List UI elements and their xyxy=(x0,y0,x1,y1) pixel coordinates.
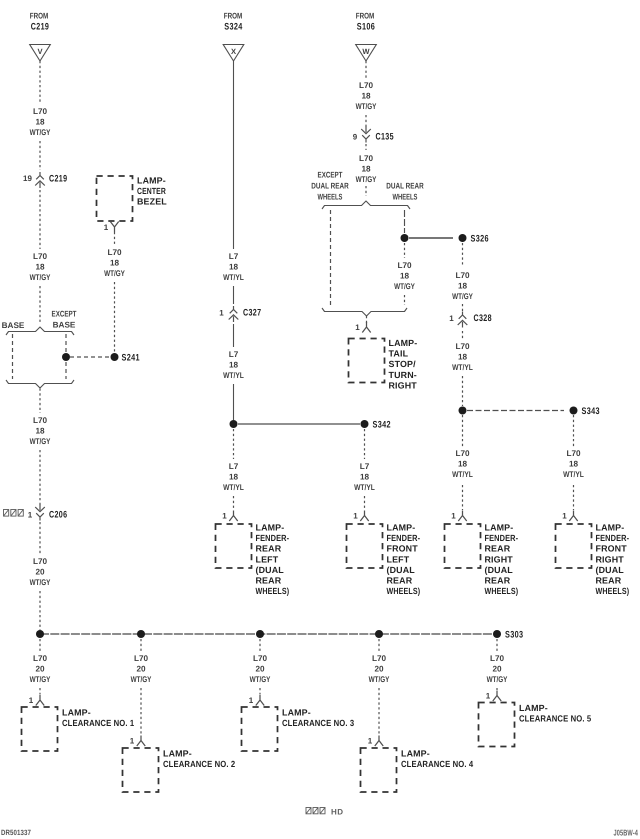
svg-text:LAMP-: LAMP- xyxy=(387,523,416,533)
wire to connector C206 xyxy=(39,450,41,507)
svg-text:REAR: REAR xyxy=(485,576,511,586)
wire drop to clearance no. 4 pin xyxy=(378,688,380,735)
svg-text:C206: C206 xyxy=(49,510,67,521)
svg-text:L70: L70 xyxy=(253,654,268,663)
svg-text:WT/GY: WT/GY xyxy=(394,282,415,291)
svg-text:L70: L70 xyxy=(359,81,374,90)
svg-text:(DUAL: (DUAL xyxy=(485,565,514,575)
connector C327 pin 1 xyxy=(219,306,261,322)
svg-text:LAMP-: LAMP- xyxy=(485,523,514,533)
svg-text:WT/GY: WT/GY xyxy=(369,675,390,684)
svg-text:L70: L70 xyxy=(359,154,374,163)
svg-text:18: 18 xyxy=(35,427,45,436)
svg-text:S106: S106 xyxy=(357,22,375,33)
wire to connector C135 xyxy=(365,115,367,127)
svg-text:18: 18 xyxy=(229,473,239,482)
wire BASE branch xyxy=(12,334,14,379)
bus junction 3 xyxy=(256,630,264,638)
svg-text:WT/GY: WT/GY xyxy=(250,675,271,684)
wire L70 20 WT/GY (clearance no. 1) xyxy=(30,639,51,684)
junction dual-wheels branch xyxy=(401,234,409,242)
svg-text:1: 1 xyxy=(249,696,254,705)
wire to connector C327 xyxy=(233,286,235,304)
svg-text:LEFT: LEFT xyxy=(256,554,279,564)
svg-text:S342: S342 xyxy=(373,420,391,431)
svg-text:FENDER-: FENDER- xyxy=(256,533,290,543)
label EXCEPT BASE xyxy=(52,310,77,330)
svg-text:WHEELS: WHEELS xyxy=(318,193,343,202)
junction at S342 branch xyxy=(230,420,238,428)
svg-text:WT/GY: WT/GY xyxy=(356,102,377,111)
svg-text:L70: L70 xyxy=(107,248,122,257)
svg-text:WHEELS): WHEELS) xyxy=(596,586,630,596)
wire to clearance bus xyxy=(39,591,41,630)
junction at S343 branch xyxy=(459,407,467,415)
svg-text:FRONT: FRONT xyxy=(387,544,419,554)
tail lamp pin 1 fork xyxy=(355,322,370,333)
svg-text:LAMP-: LAMP- xyxy=(596,523,625,533)
svg-text:20: 20 xyxy=(374,665,384,674)
svg-text:WT/GY: WT/GY xyxy=(487,675,508,684)
lamp - center bezel xyxy=(97,176,168,222)
wire L7 18 WT/YL (fender front left) xyxy=(354,429,375,492)
lamp - clearance no. 5 xyxy=(479,703,592,747)
svg-text:S241: S241 xyxy=(122,353,141,364)
svg-text:18: 18 xyxy=(360,473,370,482)
svg-text:18: 18 xyxy=(400,272,410,281)
svg-text:LAMP-: LAMP- xyxy=(282,708,311,718)
lamp - fender front right (dual rear wheels) xyxy=(556,523,630,597)
svg-text:20: 20 xyxy=(492,665,502,674)
lamp - fender front left (dual rear wheels) xyxy=(347,523,421,597)
svg-text:S326: S326 xyxy=(471,234,489,245)
svg-text:20: 20 xyxy=(35,665,45,674)
wire S342 tie line xyxy=(238,423,360,425)
splice S342 xyxy=(361,420,391,431)
svg-text:FRONT: FRONT xyxy=(596,544,628,554)
svg-text:LAMP-: LAMP- xyxy=(62,708,91,718)
wire L70 18 WT/GY (C219 feed upper) xyxy=(30,61,51,137)
svg-text:1: 1 xyxy=(451,512,456,521)
svg-text:1: 1 xyxy=(486,692,491,701)
svg-text:1: 1 xyxy=(130,737,135,746)
svg-text:WT/YL: WT/YL xyxy=(563,470,584,479)
svg-text:CLEARANCE NO. 2: CLEARANCE NO. 2 xyxy=(163,759,235,769)
svg-text:C327: C327 xyxy=(243,308,261,319)
wire stub to wheels brace xyxy=(365,186,367,196)
splice S303 xyxy=(493,630,523,641)
wire L70 18 WT/YL (below C328) xyxy=(452,331,473,372)
svg-text:TURN-: TURN- xyxy=(389,370,417,380)
svg-text:WT/GY: WT/GY xyxy=(30,675,51,684)
bus junction 1 xyxy=(36,630,44,638)
splice S241 xyxy=(111,353,141,364)
svg-text:18: 18 xyxy=(458,353,468,362)
svg-text:1: 1 xyxy=(562,512,567,521)
svg-text:WT/YL: WT/YL xyxy=(223,483,244,492)
footer plate number J05BW-4 xyxy=(614,828,639,838)
svg-text:C219: C219 xyxy=(31,22,49,33)
svg-text:WT/YL: WT/YL xyxy=(223,371,244,380)
wire to tail lamp pin xyxy=(366,316,368,323)
svg-text:CLEARANCE NO. 4: CLEARANCE NO. 4 xyxy=(401,759,473,769)
wire to connector C219 xyxy=(39,141,41,170)
svg-text:L70: L70 xyxy=(397,261,412,270)
svg-text:FENDER-: FENDER- xyxy=(596,533,630,543)
svg-text:L7: L7 xyxy=(229,462,239,471)
svg-text:1: 1 xyxy=(104,223,109,232)
svg-text:20: 20 xyxy=(255,665,265,674)
svg-text:C219: C219 xyxy=(49,174,67,185)
wire L70 18 WT/GY (dual wheels branch) xyxy=(394,243,415,291)
wire label L70 18 WT/GY (above C206) xyxy=(30,416,51,446)
svg-text:S303: S303 xyxy=(505,630,523,641)
svg-text:18: 18 xyxy=(35,118,45,127)
svg-text:L7: L7 xyxy=(360,462,370,471)
splice S343 xyxy=(570,406,600,417)
svg-text:1: 1 xyxy=(353,512,358,521)
svg-text:RIGHT: RIGHT xyxy=(485,554,514,564)
svg-text:1: 1 xyxy=(28,511,33,520)
lamp - clearance no. 4 xyxy=(361,748,474,792)
svg-text:LAMP-: LAMP- xyxy=(163,749,192,759)
svg-text:LAMP-: LAMP- xyxy=(137,176,166,186)
wire splice link to S241 xyxy=(70,356,110,358)
lamp - clearance no. 1 xyxy=(22,707,135,751)
wire drop to clearance no. 1 pin xyxy=(39,688,41,695)
svg-text:9: 9 xyxy=(353,133,358,142)
lamp - clearance no. 2 xyxy=(123,748,236,792)
wire to fender front right pin xyxy=(573,485,575,510)
svg-text:WT/GY: WT/GY xyxy=(452,292,473,301)
svg-text:WHEELS): WHEELS) xyxy=(387,586,421,596)
wire L70 18 WT/GY (below C135) xyxy=(356,144,377,184)
svg-text:L70: L70 xyxy=(566,449,581,458)
wire drop to clearance no. 2 pin xyxy=(140,688,142,735)
wire drop to clearance no. 3 pin xyxy=(259,688,261,695)
brace option merge (tail lamp) xyxy=(322,308,407,316)
svg-text:19: 19 xyxy=(23,174,32,183)
svg-text:L70: L70 xyxy=(455,449,470,458)
brace option split (BASE / EXCEPT BASE) xyxy=(6,327,74,335)
label EXCEPT DUAL REAR WHEELS xyxy=(311,171,348,202)
svg-text:1: 1 xyxy=(449,314,454,323)
svg-text:FENDER-: FENDER- xyxy=(485,533,519,543)
svg-text:WHEELS): WHEELS) xyxy=(256,586,290,596)
lamp - fender rear left (dual rear wheels) xyxy=(216,523,290,597)
svg-text:18: 18 xyxy=(458,460,468,469)
wire DUAL REAR WHEELS branch upper xyxy=(404,210,406,233)
connector C206 pin 1 xyxy=(4,505,68,521)
wire L70 20 WT/GY (clearance no. 5) xyxy=(487,639,508,684)
wire L7 18 WT/YL (fender rear left) xyxy=(223,429,244,492)
svg-text:REAR: REAR xyxy=(256,576,282,586)
wire L7 18 WT/YL (S324 feed) xyxy=(223,61,244,282)
svg-text:L7: L7 xyxy=(229,350,239,359)
wire to S343 junction xyxy=(462,376,464,406)
wire L70 18 WT/GY (below C219) xyxy=(30,190,51,282)
svg-text:WT/GY: WT/GY xyxy=(131,675,152,684)
svg-text:DUAL REAR: DUAL REAR xyxy=(386,182,423,191)
svg-text:18: 18 xyxy=(110,259,120,268)
svg-text:C135: C135 xyxy=(376,132,395,143)
wire EXCEPT DUAL REAR WHEELS branch xyxy=(330,210,332,305)
svg-text:18: 18 xyxy=(361,165,371,174)
wire tie to S343 xyxy=(467,410,564,412)
svg-text:LAMP-: LAMP- xyxy=(389,338,418,348)
svg-text:1: 1 xyxy=(222,512,227,521)
clearance no. 2 pin 1 fork xyxy=(130,736,145,747)
svg-text:FROM: FROM xyxy=(356,12,375,21)
wire L70 20 WT/GY (below C206) xyxy=(30,522,51,587)
from S324 source label xyxy=(224,12,243,33)
svg-text:18: 18 xyxy=(229,361,239,370)
clearance no. 4 pin 1 fork xyxy=(368,736,383,747)
from C219 source label xyxy=(30,12,49,33)
brace option split (dual rear wheels) xyxy=(322,201,410,209)
svg-text:L70: L70 xyxy=(33,416,48,425)
svg-text:S324: S324 xyxy=(224,22,243,33)
svg-text:EXCEPT: EXCEPT xyxy=(52,310,77,319)
svg-text:20: 20 xyxy=(35,568,45,577)
fender rear left pin 1 fork xyxy=(222,511,237,522)
svg-text:DUAL REAR: DUAL REAR xyxy=(311,182,348,191)
wire L70 18 WT/GY (below S326) xyxy=(452,243,473,301)
fender rear right pin 1 fork xyxy=(451,511,466,522)
wire center bezel to splice S241 xyxy=(114,282,116,352)
svg-text:WT/GY: WT/GY xyxy=(30,128,51,137)
wire to splice S342 junction xyxy=(233,384,235,420)
svg-text:WT/GY: WT/GY xyxy=(30,578,51,587)
svg-text:RIGHT: RIGHT xyxy=(389,380,418,390)
svg-text:CLEARANCE NO. 5: CLEARANCE NO. 5 xyxy=(519,714,591,724)
svg-text:WT/YL: WT/YL xyxy=(354,483,375,492)
wire L70 20 WT/GY (clearance no. 3) xyxy=(250,639,271,684)
svg-text:BASE: BASE xyxy=(2,321,25,330)
wire to fender rear right pin xyxy=(462,485,464,510)
svg-text:BASE: BASE xyxy=(53,321,76,330)
svg-text:L70: L70 xyxy=(490,654,505,663)
svg-text:FROM: FROM xyxy=(224,12,243,21)
clearance no. 3 pin 1 fork xyxy=(249,695,264,706)
svg-text:L70: L70 xyxy=(33,107,48,116)
svg-text:1: 1 xyxy=(368,737,373,746)
wire L70 20 WT/GY (clearance no. 4) xyxy=(369,639,390,684)
svg-text:REAR: REAR xyxy=(596,576,622,586)
svg-text:L70: L70 xyxy=(134,654,149,663)
svg-text:L7: L7 xyxy=(229,252,239,261)
svg-text:LAMP-: LAMP- xyxy=(256,523,285,533)
svg-text:L70: L70 xyxy=(33,252,48,261)
wire EXCEPT BASE branch xyxy=(65,334,67,379)
footer sheet number DR501337 xyxy=(1,828,31,837)
svg-text:STOP/: STOP/ xyxy=(389,359,417,369)
svg-text:1: 1 xyxy=(355,323,360,332)
svg-text:C328: C328 xyxy=(474,313,492,324)
off-page arrow V (from C219) xyxy=(30,45,51,62)
svg-text:1: 1 xyxy=(219,309,224,318)
lamp - tail stop/turn right xyxy=(349,338,418,390)
svg-text:WHEELS): WHEELS) xyxy=(485,586,519,596)
center bezel pin 1 fork xyxy=(104,222,119,233)
svg-text:J05BW-4: J05BW-4 xyxy=(614,828,639,838)
svg-text:L70: L70 xyxy=(33,654,48,663)
svg-text:REAR: REAR xyxy=(485,544,511,554)
brace option merge (base options) xyxy=(6,380,74,388)
svg-text:CLEARANCE NO. 3: CLEARANCE NO. 3 xyxy=(282,718,354,728)
svg-text:WHEELS: WHEELS xyxy=(393,193,418,202)
wire L70 18 WT/YL (fender rear right) xyxy=(452,415,473,479)
svg-text:W: W xyxy=(362,47,370,56)
label BASE xyxy=(2,321,25,330)
from S106 source label xyxy=(356,12,375,33)
connector C219 pin 19 xyxy=(23,172,67,188)
svg-text:L70: L70 xyxy=(33,557,48,566)
svg-text:(DUAL: (DUAL xyxy=(387,565,416,575)
svg-text:(DUAL: (DUAL xyxy=(596,565,625,575)
svg-text:18: 18 xyxy=(229,263,239,272)
svg-text:TAIL: TAIL xyxy=(389,349,409,359)
svg-text:CLEARANCE NO. 1: CLEARANCE NO. 1 xyxy=(62,718,134,728)
svg-text:18: 18 xyxy=(569,460,579,469)
svg-text:1: 1 xyxy=(29,696,34,705)
wire drop to clearance no. 5 pin xyxy=(496,688,498,690)
svg-text:WT/YL: WT/YL xyxy=(223,273,244,282)
svg-text:LAMP-: LAMP- xyxy=(519,703,548,713)
wire to fender rear left pin xyxy=(233,496,235,510)
label DUAL REAR WHEELS xyxy=(386,182,423,202)
svg-text:FROM: FROM xyxy=(30,12,49,21)
splice S326 xyxy=(459,234,489,245)
svg-text:WT/GY: WT/GY xyxy=(30,437,51,446)
svg-text:LEFT: LEFT xyxy=(387,554,410,564)
off-page arrow W (from S106) xyxy=(356,45,377,62)
svg-text:L70: L70 xyxy=(372,654,387,663)
connector C135 pin 9 xyxy=(353,127,394,143)
svg-text:20: 20 xyxy=(136,665,146,674)
lamp - clearance no. 3 xyxy=(242,707,355,751)
svg-text:EXCEPT: EXCEPT xyxy=(318,171,343,180)
svg-text:WT/GY: WT/GY xyxy=(104,269,125,278)
lamp - fender rear right (dual rear wheels) xyxy=(445,523,519,597)
wire dual wheels branch lower xyxy=(404,295,406,305)
wire tie to S326 xyxy=(409,237,453,239)
wire L70 18 WT/YL (fender front right) xyxy=(563,415,584,479)
svg-text:X: X xyxy=(231,47,236,56)
footer code HD xyxy=(306,808,344,817)
svg-text:L70: L70 xyxy=(455,271,470,280)
bus junction 4 xyxy=(375,630,383,638)
wire L70 18 WT/GY (S106 feed) xyxy=(356,61,377,111)
bus junction 2 xyxy=(137,630,145,638)
wire to fender front left pin xyxy=(364,496,366,510)
off-page arrow X (from S324) xyxy=(223,45,244,62)
clearance lamp bus wire xyxy=(40,633,493,635)
wire L70 18 WT/GY (center bezel) xyxy=(104,232,125,278)
wire below option merge xyxy=(39,389,41,414)
svg-text:L70: L70 xyxy=(455,342,470,351)
svg-text:RIGHT: RIGHT xyxy=(596,554,625,564)
svg-text:BEZEL: BEZEL xyxy=(137,197,167,207)
wire to connector C328 xyxy=(462,304,464,311)
svg-text:CENTER: CENTER xyxy=(137,186,166,196)
svg-text:REAR: REAR xyxy=(256,544,282,554)
wire to base-option brace xyxy=(39,286,41,324)
svg-text:WT/YL: WT/YL xyxy=(452,470,473,479)
wire L70 20 WT/GY (clearance no. 2) xyxy=(131,639,152,684)
svg-text:DR501337: DR501337 xyxy=(1,828,31,837)
svg-text:LAMP-: LAMP- xyxy=(401,749,430,759)
clearance no. 5 pin 1 fork xyxy=(486,691,501,702)
svg-text:REAR: REAR xyxy=(387,576,413,586)
svg-text:WT/YL: WT/YL xyxy=(452,363,473,372)
connector C328 pin 1 xyxy=(449,312,492,328)
wire L7 18 WT/YL (below C327) xyxy=(223,324,244,380)
svg-text:HD: HD xyxy=(331,808,344,817)
svg-text:18: 18 xyxy=(361,92,371,101)
svg-text:FENDER-: FENDER- xyxy=(387,533,421,543)
fender front right pin 1 fork xyxy=(562,511,577,522)
svg-text:18: 18 xyxy=(458,282,468,291)
fender front left pin 1 fork xyxy=(353,511,368,522)
clearance no. 1 pin 1 fork xyxy=(29,695,44,706)
svg-text:18: 18 xyxy=(35,263,45,272)
svg-text:S343: S343 xyxy=(582,406,600,417)
junction on EXCEPT BASE branch xyxy=(62,353,70,361)
svg-text:(DUAL: (DUAL xyxy=(256,565,285,575)
svg-text:WT/GY: WT/GY xyxy=(30,273,51,282)
svg-text:WT/GY: WT/GY xyxy=(356,175,377,184)
